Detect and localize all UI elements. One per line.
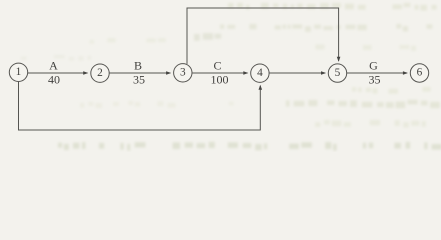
- arrowhead into node 4 from bottom: [259, 85, 263, 90]
- svg-text:G: G: [369, 59, 378, 73]
- node 3: [174, 64, 192, 82]
- node 4: [251, 64, 269, 82]
- node 6: [410, 64, 428, 82]
- arrowhead into node 6: [403, 71, 408, 75]
- svg-text:A: A: [49, 59, 58, 73]
- arrowhead into node 2: [83, 71, 88, 75]
- svg-text:1: 1: [16, 66, 22, 78]
- svg-text:C: C: [213, 59, 221, 73]
- page background: [0, 0, 441, 152]
- svg-text:B: B: [134, 59, 142, 73]
- svg-text:5: 5: [335, 67, 341, 79]
- svg-text:100: 100: [211, 73, 229, 87]
- arrowhead into node 5 from top: [337, 57, 341, 62]
- arrowhead into node 3: [166, 71, 171, 75]
- arrowhead into node 5: [321, 71, 326, 75]
- wire 3-4: [192, 72, 247, 74]
- node 5: [328, 64, 346, 82]
- node 2: [91, 64, 109, 82]
- wire 1-4 bottom bypass: [19, 82, 261, 130]
- wire 3-5 top bypass: [187, 8, 339, 64]
- svg-text:3: 3: [180, 67, 186, 79]
- wire 5-6: [347, 72, 407, 74]
- svg-text:35: 35: [369, 73, 381, 87]
- GHOST_END: [9, 8, 428, 130]
- wire 4-5: [269, 72, 325, 74]
- arrowhead into node 4: [243, 71, 248, 75]
- svg-text:40: 40: [48, 73, 60, 87]
- wire 1-2: [28, 72, 88, 74]
- svg-text:2: 2: [97, 67, 103, 79]
- scanned-page bleed-through texture: [21, 3, 441, 151]
- svg-text:4: 4: [257, 67, 263, 79]
- svg-text:35: 35: [133, 73, 145, 87]
- svg-text:6: 6: [417, 67, 423, 79]
- node 1: [9, 63, 27, 81]
- wire 2-3: [109, 72, 170, 74]
